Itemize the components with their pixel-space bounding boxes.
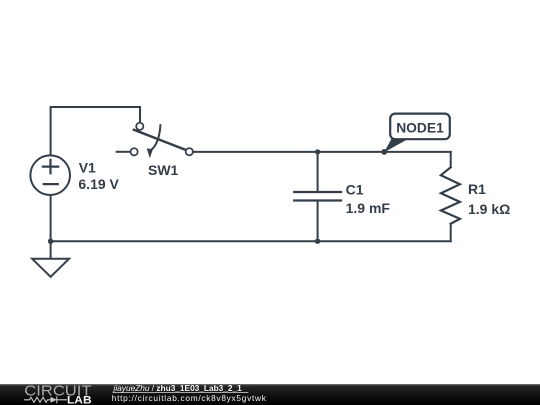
wire main rail from switch to right corner	[193, 151, 451, 153]
svg-text:V1: V1	[79, 159, 96, 175]
node NODE1 pointer wedge	[384, 139, 408, 153]
svg-text:http://circuitlab.com/ck8v8yx5: http://circuitlab.com/ck8v8yx5gvtwk	[112, 393, 267, 403]
voltage source V1	[30, 155, 70, 195]
wire bottom rail	[51, 240, 451, 242]
svg-text:NODE1: NODE1	[396, 121, 444, 136]
svg-text:SW1: SW1	[148, 162, 179, 178]
junction dot capacitor bottom	[315, 239, 320, 244]
svg-text:LAB: LAB	[67, 395, 92, 405]
wire V1 bottom lead	[50, 195, 52, 241]
capacitor C1	[294, 152, 341, 241]
node NODE1 callout box	[390, 114, 450, 140]
junction dot capacitor top	[315, 149, 320, 154]
wire ground lead	[50, 241, 52, 258]
svg-text:6.19 V: 6.19 V	[78, 176, 119, 192]
svg-text:1.9 kΩ: 1.9 kΩ	[468, 201, 510, 217]
logo resistor-diode glyph	[25, 397, 67, 403]
resistor R1	[441, 152, 460, 241]
footer title underline	[114, 392, 249, 394]
wire top bypass from V1 top to switch	[51, 107, 140, 156]
svg-text:jiayueZhu / zhu3_1E03_Lab3_2_1: jiayueZhu / zhu3_1E03_Lab3_2_1	[113, 383, 243, 393]
switch SW1	[117, 123, 193, 158]
node NODE1 dot	[381, 149, 387, 155]
ground	[32, 259, 69, 277]
svg-text:1.9 mF: 1.9 mF	[346, 200, 391, 216]
svg-text:C1: C1	[346, 181, 364, 197]
footer bar	[0, 384, 540, 405]
node junction dot at V1/ground	[48, 239, 53, 244]
svg-text:R1: R1	[468, 181, 486, 197]
